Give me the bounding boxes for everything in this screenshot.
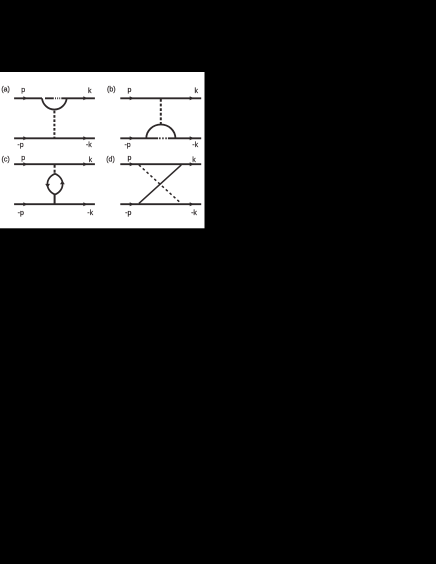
fermion line d-bottom: [120, 203, 201, 205]
svg-text:k: k: [194, 88, 198, 95]
svg-text:k: k: [192, 157, 196, 164]
arrow c-bottom-right: [83, 202, 87, 206]
svg-text:-k: -k: [87, 210, 93, 217]
arrow c-top-left: [23, 162, 27, 166]
solid crossed nucleon d: [139, 165, 181, 204]
fermion line b-top: [120, 97, 201, 99]
arrow c-top-right: [83, 162, 87, 166]
svg-text:(a): (a): [1, 87, 10, 94]
arrow loop-right pointing up: [60, 181, 65, 185]
nucleon arc a: [42, 98, 67, 109]
svg-text:-k: -k: [192, 142, 198, 149]
solid stem c-bottom: [54, 194, 56, 204]
svg-text:p: p: [21, 87, 25, 94]
white figure panel: [0, 72, 205, 228]
nucleon arc b: [146, 125, 175, 139]
arrow a-top-left: [23, 96, 27, 100]
arrow b-top-left: [130, 96, 134, 100]
dashed crossed meson d: [139, 165, 181, 204]
arrow b-bottom-left: [130, 136, 134, 140]
fermion line a-top with dashed chord: [14, 97, 95, 99]
arrow d-bottom-left: [130, 202, 134, 206]
dashed meson vertical b: [160, 99, 162, 124]
arrow a-bottom-left: [23, 136, 27, 140]
svg-text:(c): (c): [2, 157, 10, 164]
arrow a-bottom-right: [83, 136, 87, 140]
svg-text:p: p: [128, 155, 132, 162]
svg-text:-p: -p: [17, 142, 23, 149]
svg-text:-p: -p: [124, 142, 130, 149]
svg-text:(d): (d): [106, 157, 115, 164]
meson loop c: [47, 174, 62, 195]
arrow loop-left pointing down: [45, 184, 50, 188]
svg-text:k: k: [89, 157, 93, 164]
svg-text:p: p: [128, 87, 132, 94]
arrow d-top-right: [190, 162, 194, 166]
arrow c-bottom-left: [23, 202, 27, 206]
svg-text:-k: -k: [86, 142, 92, 149]
arrow d-bottom-right: [190, 202, 194, 206]
svg-text:-k: -k: [191, 210, 197, 217]
fermion line b-bottom with dashed chord: [120, 137, 201, 139]
dashed meson vertical a: [53, 111, 55, 139]
arrow a-top-right: [83, 96, 87, 100]
svg-text:k: k: [88, 88, 92, 95]
svg-text:(b): (b): [107, 87, 116, 94]
svg-text:-p: -p: [125, 210, 131, 217]
fermion line c-top: [14, 163, 95, 165]
arrow b-top-right: [190, 96, 194, 100]
fermion line d-top: [120, 163, 201, 165]
svg-text:p: p: [21, 155, 25, 162]
fermion line c-bottom: [14, 203, 95, 205]
dashed stem c-top: [54, 165, 56, 174]
arrow d-top-left: [130, 162, 134, 166]
arrow b-bottom-right: [190, 136, 194, 140]
fermion line a-bottom: [14, 137, 95, 139]
svg-text:-p: -p: [18, 210, 24, 217]
